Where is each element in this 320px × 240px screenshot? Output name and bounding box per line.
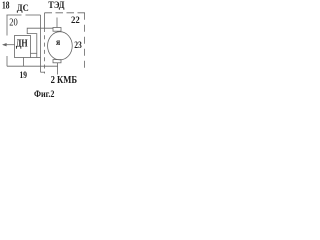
svg-text:Фиг.2: Фиг.2	[34, 90, 55, 100]
box DN	[15, 36, 31, 58]
block TED dashed boundary top edge	[45, 12, 86, 14]
arrow output from DN	[3, 44, 14, 46]
box DS right edge / wire down	[40, 15, 42, 72]
svg-text:ТЭД: ТЭД	[48, 0, 65, 10]
brush bottom	[53, 60, 61, 63]
wire DN bottom to right edge	[31, 57, 41, 59]
svg-text:я: я	[56, 38, 60, 48]
armature circle	[48, 32, 73, 60]
box DS left edge	[6, 15, 8, 36]
box DS top edge	[7, 14, 22, 16]
wire DN to bus	[23, 58, 25, 67]
svg-text:20: 20	[9, 17, 17, 28]
block TED dashed boundary right edge	[84, 13, 86, 71]
svg-text:18: 18	[2, 0, 10, 11]
svg-text:22: 22	[71, 15, 80, 26]
brush top	[53, 28, 61, 32]
wire stub to dashed edge	[41, 71, 46, 73]
arrowhead	[2, 43, 7, 46]
svg-text:ДН: ДН	[16, 39, 28, 50]
svg-text:19: 19	[20, 70, 27, 81]
svg-text:ДС: ДС	[17, 4, 29, 14]
wire top brush terminal	[56, 18, 58, 28]
wire bottom brush to KMB	[57, 63, 59, 75]
svg-text:23: 23	[74, 40, 82, 51]
wire bottom bus	[7, 65, 58, 67]
wire branch to DN right edge	[31, 52, 37, 54]
svg-text:2 КМБ: 2 КМБ	[51, 74, 78, 86]
wire corner at TED top-left	[44, 13, 46, 28]
block TED dashed boundary left edge	[44, 28, 46, 74]
wire DN to top brush	[27, 28, 53, 57]
